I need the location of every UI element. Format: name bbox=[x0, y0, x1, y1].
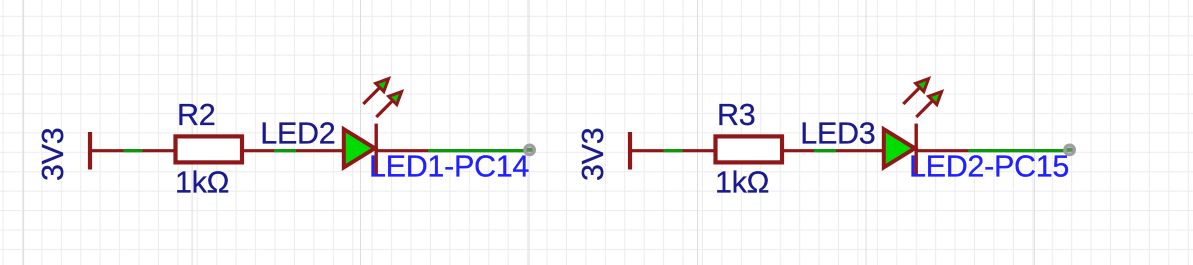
svg-text:R2: R2 bbox=[177, 98, 215, 132]
svg-text:1kΩ: 1kΩ bbox=[175, 166, 229, 200]
svg-text:3V3: 3V3 bbox=[36, 128, 70, 181]
svg-text:LED3: LED3 bbox=[800, 116, 875, 150]
svg-text:LED2-PC15: LED2-PC15 bbox=[909, 150, 1069, 184]
svg-text:LED1-PC14: LED1-PC14 bbox=[369, 150, 529, 184]
svg-text:3V3: 3V3 bbox=[576, 128, 610, 181]
svg-text:R3: R3 bbox=[717, 98, 755, 132]
circuit 2 graphics bbox=[630, 79, 1076, 177]
circuit 1 graphics bbox=[90, 79, 536, 177]
svg-text:LED2: LED2 bbox=[260, 116, 335, 150]
svg-text:1kΩ: 1kΩ bbox=[715, 166, 769, 200]
